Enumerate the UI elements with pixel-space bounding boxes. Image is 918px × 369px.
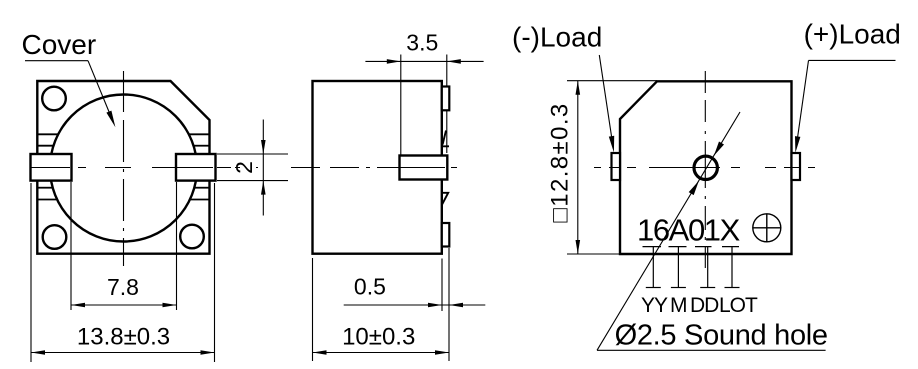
(+)Load arrowhead (795, 136, 800, 153)
dim 12.8 dimension line (577, 81, 579, 254)
castellation hook lower (442, 193, 448, 205)
notch line right lower 1 (194, 187, 209, 189)
marking bottom tick YY (646, 287, 661, 289)
dim 13.8 dimension line (31, 352, 215, 354)
polarity mark cross (753, 214, 781, 242)
svg-text:(-)Load: (-)Load (512, 21, 602, 52)
Cover leader tail (25, 60, 88, 62)
dim 0.5 extension line left (441, 259, 443, 312)
dim 10 arrow left (313, 350, 327, 355)
sound hole arrow lower (689, 181, 699, 195)
castellation hook upper (442, 131, 449, 147)
marking underline DD (695, 246, 712, 248)
marking dropper M (677, 247, 679, 288)
right terminal tab (top view) (792, 153, 801, 180)
hole bottom-left (43, 225, 67, 249)
sound hole label underline (597, 349, 826, 351)
dim 13.8 extension line right (214, 183, 216, 362)
marking bottom tick M (671, 287, 686, 289)
svg-text:13.8±0.3: 13.8±0.3 (77, 323, 170, 350)
svg-text:(+)Load: (+)Load (804, 19, 901, 50)
big circle (cover outline) (50, 95, 197, 242)
notch line left lower 1 (37, 187, 52, 189)
dim 0.5 arrow right (449, 303, 463, 308)
polarity mark circle (753, 214, 781, 242)
dim 7.8 arrow left (71, 303, 85, 308)
Cover leader line (88, 61, 109, 113)
dim 10 arrow right (435, 350, 449, 355)
dim 2 dimension line (262, 120, 264, 216)
marking bottom tick LOT (725, 287, 740, 289)
left terminal tab (31, 154, 72, 181)
dim 3.5 dimension line (365, 60, 483, 62)
svg-text:10±0.3: 10±0.3 (342, 323, 415, 350)
svg-text:Cover: Cover (22, 29, 97, 60)
right terminal tab (176, 154, 216, 181)
svg-text:0.5: 0.5 (354, 274, 386, 300)
dim 3.5 extension line left (400, 55, 402, 156)
dim 3.5 arrow right (447, 59, 461, 64)
svg-text:7.8: 7.8 (107, 274, 139, 300)
notch line left upper 2 (37, 145, 53, 147)
Cover leader arrowhead (106, 111, 115, 128)
hole top-left (42, 87, 66, 111)
bottom-right corner tab (442, 223, 450, 247)
svg-text:LOT: LOT (719, 294, 758, 317)
dim 13.8 arrow left (31, 350, 45, 355)
vertical center line of top view (704, 71, 706, 268)
dim 0.5 extension line right (448, 248, 450, 361)
dim 10 extension line left (312, 258, 314, 361)
dim 0.5 dimension line (344, 304, 486, 306)
side body rectangle (313, 81, 442, 254)
marking underline LOT (722, 246, 739, 248)
dim 2 arrow bottom (261, 181, 266, 195)
dim 2 extension line top (217, 153, 288, 155)
svg-text:DD: DD (690, 294, 719, 317)
horizontal center line of top view (594, 167, 815, 169)
dim 7.8 arrow right (163, 303, 177, 308)
horizontal center line (32, 167, 259, 169)
dim 7.8 extension line right (176, 182, 178, 310)
dim 12.8 arrow top (576, 81, 581, 95)
svg-text:16A01X: 16A01X (637, 213, 741, 248)
dim 7.8 extension line left (70, 182, 72, 310)
dim 12.8 extension line bottom (567, 253, 620, 255)
notch line left lower 2 (37, 199, 57, 201)
marking bottom tick DD (700, 287, 715, 289)
(+)Load leader line (797, 60, 808, 139)
marking dropper LOT (731, 247, 733, 288)
dim 12.8 extension line top (567, 80, 657, 82)
vertical center line (123, 71, 125, 266)
notch line right lower 2 (190, 199, 210, 201)
dim 3.5 extension line right (446, 55, 448, 154)
dim 3.5 arrow left (387, 59, 401, 64)
left terminal tab (top view) (612, 153, 621, 180)
marking dropper DD (707, 247, 709, 288)
sound hole circle (694, 156, 717, 179)
dim 2 arrow top (261, 140, 266, 154)
svg-text:□12.8±0.3: □12.8±0.3 (547, 102, 574, 222)
dim 2 extension line bottom (217, 180, 288, 182)
(-)Load leader line (599, 55, 612, 140)
hole bottom-right (180, 225, 204, 249)
dim 12.8 arrow bottom (576, 240, 581, 254)
marking underline M (669, 246, 687, 248)
middle terminal tab (400, 156, 448, 180)
dim 0.5 arrow left (428, 303, 442, 308)
svg-text:2: 2 (231, 161, 257, 174)
(-)Load arrowhead (609, 136, 614, 153)
dim 13.8 arrow right (201, 350, 215, 355)
svg-text:M: M (670, 294, 687, 317)
svg-text:3.5: 3.5 (406, 29, 438, 55)
sound hole arrow upper (714, 142, 724, 156)
horizontal center line of side view (291, 167, 457, 169)
notch line right upper 2 (194, 145, 210, 147)
notch line right upper 1 (189, 133, 210, 135)
body outline with chamfer (37, 81, 209, 254)
top body outline with chamfer (620, 81, 792, 254)
top-right corner tab (442, 87, 450, 111)
dim 7.8 dimension line (71, 304, 177, 306)
dim 13.8 extension line left (30, 183, 32, 362)
dim 10 dimension line (313, 352, 450, 354)
sound hole leader line (597, 112, 740, 350)
svg-text:YY: YY (641, 294, 668, 317)
marking dropper YY (652, 247, 654, 288)
svg-text:Ø2.5 Sound hole: Ø2.5 Sound hole (615, 320, 828, 352)
(+)Load leader tail (809, 59, 896, 61)
marking underline YY (643, 246, 662, 248)
notch line left upper 1 (37, 133, 58, 135)
